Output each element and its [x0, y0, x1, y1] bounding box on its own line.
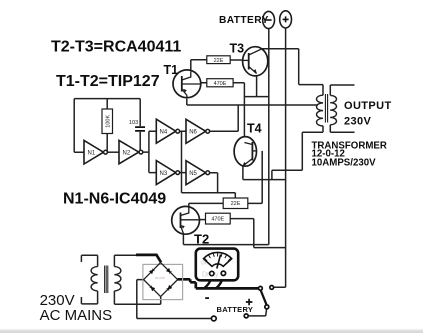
svg-text:T2-T3=RCA40411: T2-T3=RCA40411 — [51, 39, 181, 56]
svg-text:470E: 470E — [214, 81, 227, 87]
svg-text:N1-N6-IC4049: N1-N6-IC4049 — [63, 191, 166, 208]
svg-text:N6: N6 — [189, 130, 197, 136]
svg-text:T3: T3 — [230, 42, 245, 56]
svg-text:AC MAINS: AC MAINS — [40, 307, 113, 324]
svg-text:T2: T2 — [194, 232, 209, 247]
svg-text:22E: 22E — [214, 58, 224, 64]
svg-text:BATTERY: BATTERY — [217, 305, 254, 314]
svg-text:T1: T1 — [164, 63, 179, 77]
svg-text:230V: 230V — [344, 115, 372, 127]
svg-text:10AMPS/230V: 10AMPS/230V — [312, 157, 377, 168]
svg-text:OUTPUT: OUTPUT — [344, 100, 392, 112]
svg-text:T4: T4 — [247, 122, 262, 136]
svg-text:22E: 22E — [231, 201, 241, 207]
svg-text:mode: mode — [155, 275, 166, 280]
svg-text:470E: 470E — [211, 217, 224, 223]
svg-text:100K: 100K — [105, 115, 111, 128]
svg-text:N5: N5 — [189, 171, 197, 177]
svg-text:BATTERY: BATTERY — [219, 15, 269, 26]
svg-text:N2: N2 — [123, 150, 131, 156]
svg-text:N3: N3 — [160, 171, 168, 177]
svg-text:N1: N1 — [88, 151, 96, 157]
svg-text:T1-T2=TIP127: T1-T2=TIP127 — [56, 73, 160, 90]
svg-text:103: 103 — [129, 120, 138, 126]
svg-text:N4: N4 — [160, 130, 168, 136]
